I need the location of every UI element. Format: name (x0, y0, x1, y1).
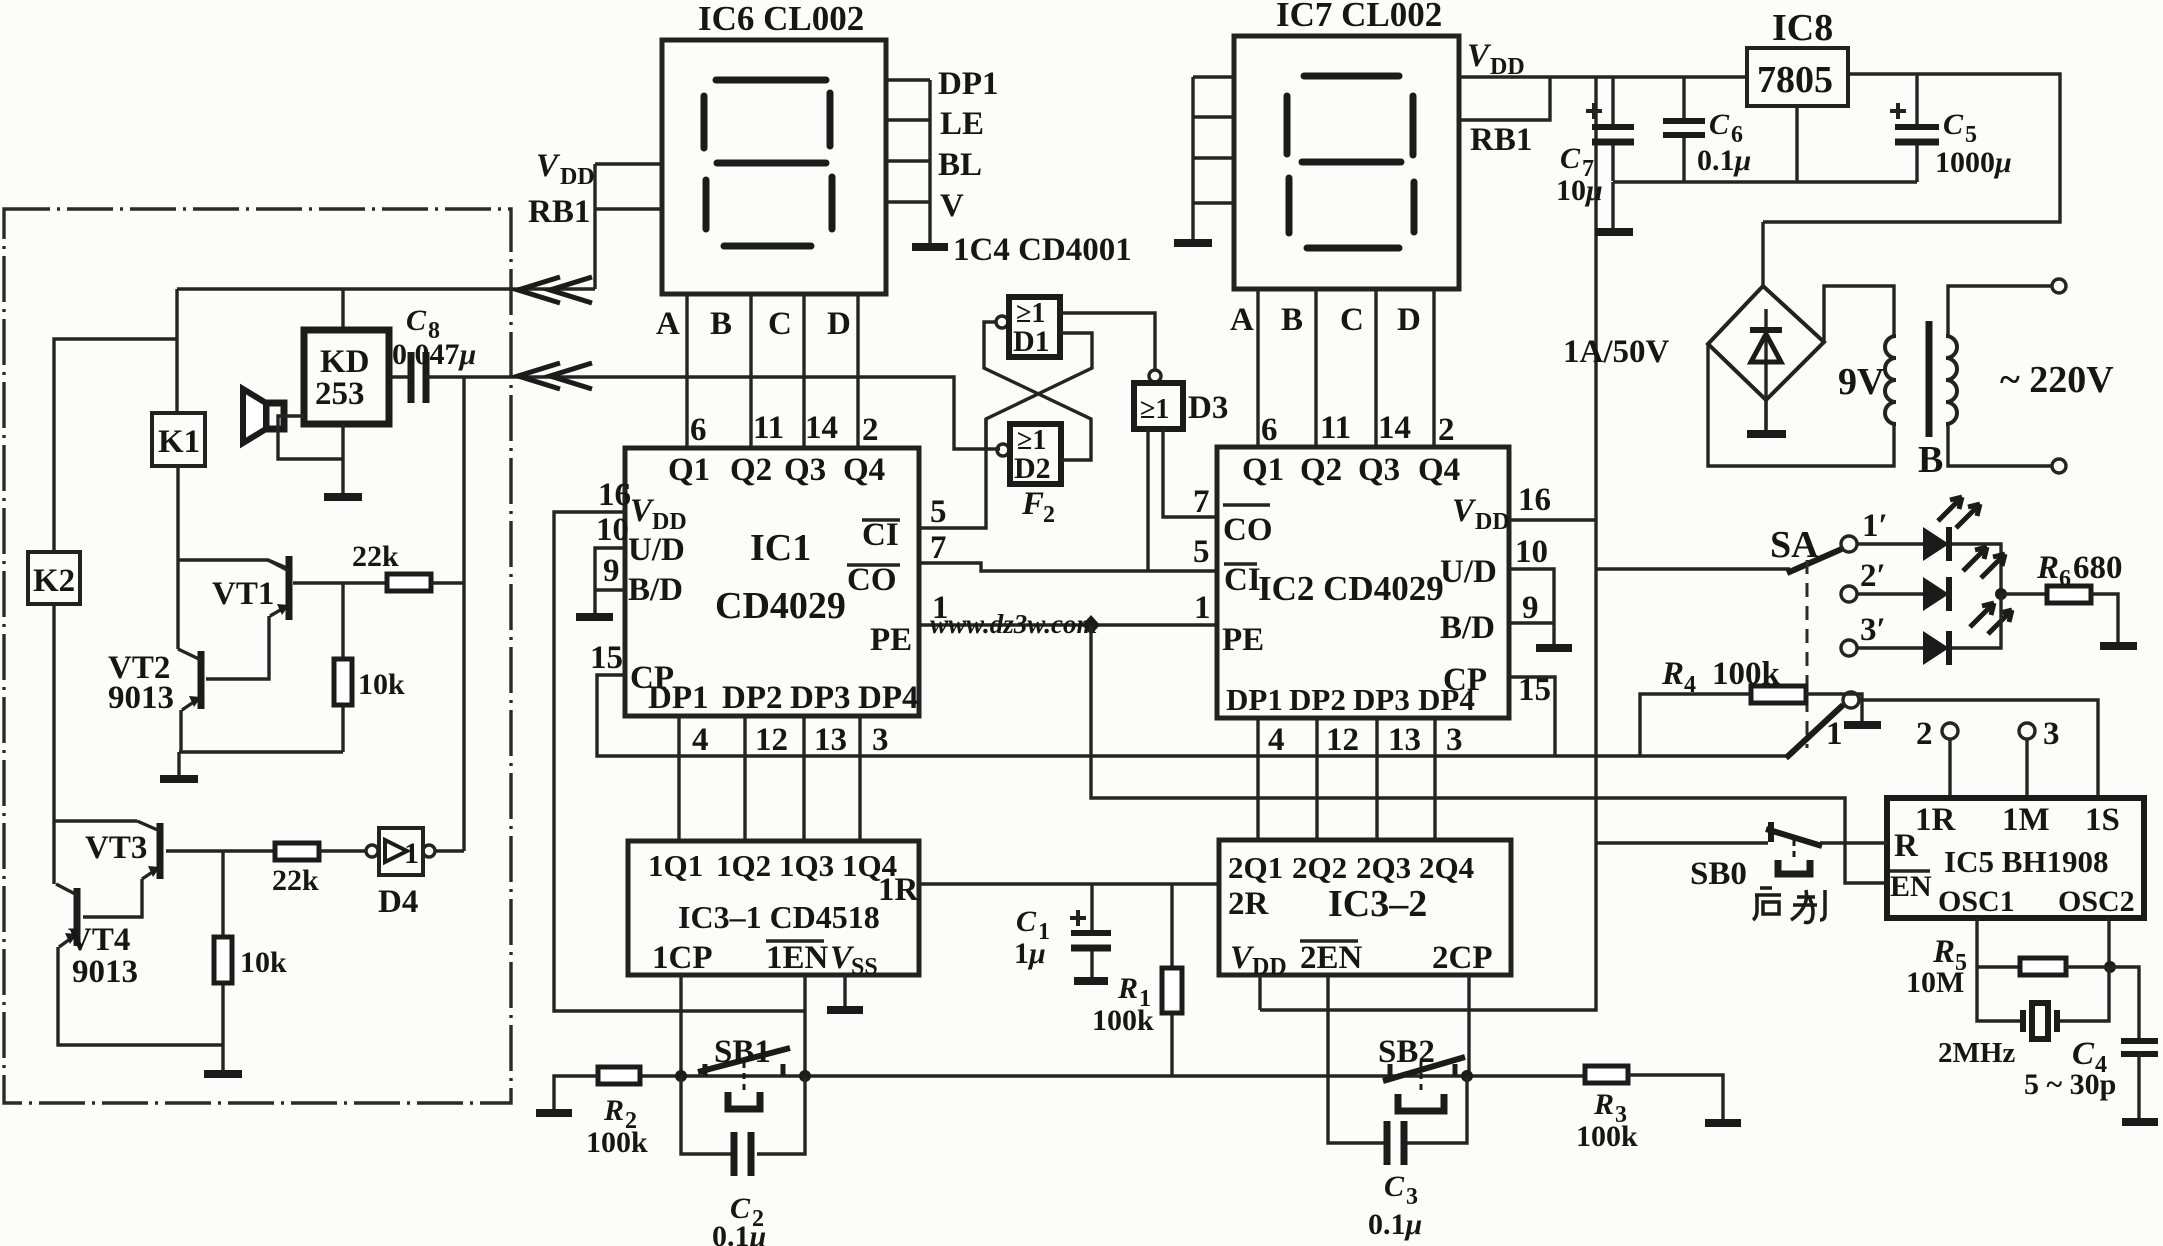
svg-text:U/D: U/D (1440, 554, 1497, 590)
svg-text:4: 4 (692, 722, 709, 758)
SA gang dashed link (1806, 560, 1809, 748)
wire: 2CP pin down to SB2 right node (1467, 975, 1470, 1076)
resistor R2 (586, 1067, 648, 1159)
transformer core (1926, 321, 1933, 437)
svg-text:DD: DD (1475, 509, 1510, 535)
svg-text:9: 9 (603, 553, 620, 589)
contact 3 circle + wire to 1M (2019, 716, 2060, 798)
svg-text:3: 3 (872, 722, 889, 758)
counter IC3-2 box (1219, 840, 1511, 975)
wire: D1 input from cross (984, 322, 1091, 460)
svg-text:C: C (1709, 108, 1730, 141)
svg-text:5: 5 (1193, 534, 1210, 570)
ground (bridge) (1747, 430, 1786, 438)
wires: IC7 left pins tied to ground (1193, 77, 1234, 240)
wire: primary bottom terminal (1948, 424, 2052, 466)
junction dot (PE node) (1082, 615, 1100, 635)
resistor 22k (VT1 base) (352, 540, 431, 591)
capacitor C5 electrolytic (1890, 74, 1939, 182)
svg-text:C: C (1384, 1170, 1405, 1203)
resistor R4 (1661, 656, 1806, 703)
svg-text:9: 9 (1522, 590, 1539, 626)
wire: 2EN pin down to SB2 left (1326, 975, 1329, 1076)
svg-text:B/D: B/D (1440, 610, 1495, 646)
wire: LED1 to join column (1952, 544, 2001, 594)
svg-text:V: V (940, 188, 964, 224)
svg-text:PE: PE (1222, 622, 1264, 658)
wire: SA deck1 pole feed from VDD (1596, 567, 1790, 570)
ground (C1) (1074, 977, 1108, 985)
svg-text:2: 2 (862, 412, 879, 448)
svg-text:0.1μ: 0.1μ (712, 1220, 766, 1246)
svg-text:F: F (1021, 486, 1044, 522)
wire: KD253 left pin to speaker and bottom pin loop (278, 416, 343, 497)
svg-text:15: 15 (590, 640, 623, 676)
svg-text:R: R (1894, 828, 1919, 864)
svg-text:K1: K1 (158, 424, 200, 460)
svg-text:Q1: Q1 (668, 452, 710, 488)
wire: IC6 VDD pin (595, 162, 662, 165)
terminal circle bottom (2052, 459, 2066, 473)
wire: 1R to 2R rail (919, 882, 1219, 885)
svg-text:D: D (827, 306, 851, 342)
bridge internal diode (1750, 309, 1782, 429)
svg-text:VT4: VT4 (68, 922, 130, 958)
wire: PE node down to rail y798 (1091, 625, 1887, 883)
wire: VT3 base to 22k (166, 849, 275, 852)
ground (IC7 left pins) (1174, 239, 1212, 247)
svg-text:LE: LE (940, 106, 984, 142)
svg-text:R: R (1117, 972, 1138, 1005)
wire: VT1 emitter to VT2 base (206, 616, 269, 679)
svg-text:2: 2 (1916, 716, 1933, 752)
svg-text:DD: DD (560, 164, 595, 190)
resistor R3 (1576, 1066, 1638, 1153)
terminal circle top (2052, 279, 2066, 293)
capacitor C1 electrolytic (1070, 884, 1111, 978)
svg-text:10k: 10k (358, 668, 405, 701)
svg-text:10: 10 (1515, 534, 1548, 570)
wire: 1' to LED1 (1857, 542, 1923, 545)
wire: arrow line 2 (C8 signal line to latch) (426, 377, 1000, 449)
wire: join to R6 (2001, 592, 2047, 595)
wire: VT4 collector column / emitter to bottom rail (54, 821, 223, 1045)
wire: IC7 VDD pin to 5V rail (1459, 75, 1747, 78)
relay K2 (28, 552, 80, 604)
wire: IC2 CP to rail y756 (1509, 677, 1555, 756)
svg-text:3: 3 (2043, 716, 2060, 752)
svg-text:7: 7 (1193, 484, 1210, 520)
svg-text:Q4: Q4 (843, 452, 885, 488)
wire: bridge left to 9V winding bottom (1708, 344, 1894, 466)
svg-text:2Q1: 2Q1 (1228, 850, 1283, 885)
ground (VT2 emitter) (160, 775, 198, 783)
speaker (243, 389, 284, 443)
wire: contact 1 to IC5 1S (1859, 700, 2098, 798)
gate D1 (NOR) (996, 297, 1060, 358)
svg-text:6: 6 (2059, 566, 2071, 592)
svg-text:1R: 1R (1915, 802, 1957, 838)
svg-text:R: R (1661, 656, 1684, 692)
svg-text:22k: 22k (352, 540, 399, 573)
svg-text:B: B (1281, 302, 1303, 338)
wire: IC1 pins 10,9 tied to ground (595, 548, 625, 613)
switch SB0 start button (1596, 822, 1887, 874)
svg-text:3′: 3′ (1860, 612, 1886, 648)
LED2 (1923, 577, 1949, 611)
svg-text:R: R (603, 1094, 624, 1127)
svg-text:CD4029: CD4029 (715, 585, 846, 627)
svg-text:1CP: 1CP (652, 940, 713, 976)
gate D2 (NOR) (997, 424, 1061, 485)
svg-text:7: 7 (930, 530, 947, 566)
wire: bridge bottom to ground (1764, 400, 1767, 431)
ground (C4) (2122, 1118, 2158, 1126)
svg-text:100k: 100k (1092, 1004, 1154, 1037)
svg-text:2Q4: 2Q4 (1419, 850, 1474, 885)
wire: IC3-2 VDD pin down to VDD rail (1258, 975, 1261, 1010)
transformer B secondary 9V winding (1885, 336, 1896, 424)
junction dot SB2 right (1461, 1070, 1473, 1082)
svg-text:253: 253 (315, 376, 365, 412)
svg-text:2′: 2′ (1860, 558, 1886, 594)
svg-text:Q4: Q4 (1418, 452, 1460, 488)
svg-text:5 ~ 30p: 5 ~ 30p (2024, 1068, 2116, 1101)
capacitor C2 bypass loop (681, 1076, 805, 1154)
ground (IC2 B/D) (1536, 644, 1572, 652)
resistor 10k (VT3 base divider) vertical (214, 851, 287, 1071)
wire: VT3 emitter to VT4 base (83, 879, 142, 917)
wire: KD253 right pin to C8 (389, 375, 411, 378)
svg-text:IC7 CL002: IC7 CL002 (1276, 0, 1442, 34)
svg-text:9V: 9V (1838, 361, 1885, 403)
contact 1 circle (1843, 692, 1859, 708)
wire: IC7 RB1 tied to VDD (1459, 77, 1550, 120)
svg-text:11: 11 (753, 410, 784, 446)
svg-text:100k: 100k (1576, 1120, 1638, 1153)
svg-text:DP3: DP3 (1353, 682, 1410, 717)
svg-text:9013: 9013 (108, 680, 174, 716)
svg-text:CO: CO (847, 562, 897, 598)
svg-text:D2: D2 (1014, 452, 1051, 485)
svg-text:D: D (1397, 302, 1421, 338)
wire: arrow line 1 (display rail to K1/KD253 top) (177, 289, 595, 413)
svg-text:6: 6 (1261, 412, 1278, 448)
capacitor C8 plates (411, 352, 426, 403)
svg-text:≥1: ≥1 (1140, 394, 1169, 425)
wire: D4 output up to C8 branch (435, 849, 464, 852)
junction dot OSC2 node (2104, 961, 2116, 973)
svg-text:Q2: Q2 (1300, 452, 1342, 488)
svg-text:B: B (1918, 439, 1943, 481)
svg-text:BL: BL (938, 147, 982, 183)
switch SA deck2 arm (1786, 705, 1843, 758)
wire: IC2 pin16 to VDD vertical (1509, 518, 1596, 521)
wire: common rail y182 (1613, 182, 1917, 230)
relay K1 (152, 413, 205, 466)
svg-text:0.047μ: 0.047μ (392, 338, 476, 371)
wire: IC1 pin16 to VDD rail down (554, 512, 805, 1011)
LED3 light arrows (1970, 603, 2012, 634)
svg-text:IC1: IC1 (750, 527, 811, 569)
contact 2 circle + wire to 1R (1916, 716, 1958, 798)
svg-text:R: R (1932, 934, 1955, 970)
svg-text:DP1: DP1 (1226, 682, 1283, 717)
svg-text:10M: 10M (1906, 966, 1964, 999)
gate D3 (NOR) (1134, 370, 1228, 429)
svg-text:C: C (768, 306, 792, 342)
svg-text:A: A (1230, 302, 1254, 338)
wire: IC1 CP to long rail y756 (597, 675, 1786, 756)
svg-text:RB1: RB1 (1470, 122, 1532, 158)
wire: C8 branch down to VT1 base 22k (462, 377, 465, 851)
svg-text:CI: CI (1224, 562, 1261, 598)
svg-text:10μ: 10μ (1556, 174, 1603, 207)
svg-text:SA: SA (1770, 524, 1819, 566)
bridge rectifier 1A/50V diamond (1708, 286, 1824, 400)
ground (IC6 control pins) (912, 243, 948, 251)
svg-text:DP3: DP3 (790, 680, 851, 716)
svg-text:2Q3: 2Q3 (1356, 850, 1411, 885)
wire: OSC2 down to R5 node (2107, 918, 2110, 967)
timer IC5 BH1908 box (1887, 798, 2144, 918)
svg-text:1Q1: 1Q1 (648, 848, 703, 883)
svg-text:R: R (1593, 1088, 1614, 1121)
ground (R6) (2100, 642, 2137, 650)
wire: VDD feed vertical x1596 from rail down (1260, 77, 1596, 1010)
wire: R3 right to ground (1628, 1075, 1723, 1120)
wire: K2 bottom to VT3/VT4 collectors (52, 604, 55, 821)
svg-text:1000μ: 1000μ (1935, 146, 2012, 179)
junction dot SB1 left (675, 1070, 687, 1082)
svg-text:1μ: 1μ (1014, 937, 1046, 970)
display IC7 CL002 box (1234, 36, 1459, 289)
ground (R4) (1844, 721, 1881, 729)
svg-text:4: 4 (1268, 722, 1285, 758)
svg-text:OSC1: OSC1 (1938, 885, 2015, 918)
transformer primary 220V winding (1946, 336, 1957, 424)
svg-text:B/D: B/D (628, 572, 683, 608)
svg-text:VT1: VT1 (212, 576, 274, 612)
svg-text:7805: 7805 (1757, 59, 1833, 101)
svg-text:1: 1 (404, 837, 419, 870)
svg-text:V: V (1467, 38, 1492, 74)
ground (IC1 B/D) (576, 613, 613, 621)
svg-text:2EN: 2EN (1300, 940, 1363, 976)
resistor 10k (VT1 base to rail) vertical (334, 583, 405, 752)
svg-text:IC8: IC8 (1772, 7, 1833, 49)
dash-dot enclosure box (left alarm section) (4, 209, 511, 1103)
gate D4 inverter (366, 828, 435, 920)
svg-text:CO: CO (1223, 512, 1273, 548)
wire: R2 left to ground (554, 1076, 598, 1110)
wire: 3' to LED3 (1857, 646, 1923, 649)
wires: IC1 DP pins down to IC3-1 (679, 716, 860, 841)
svg-text:22k: 22k (272, 864, 319, 897)
label qidong (start) (1753, 888, 1825, 923)
svg-text:2: 2 (1043, 502, 1055, 528)
display IC6 CL002 box (662, 40, 886, 294)
resistor R1 vertical (1162, 884, 1182, 1076)
7-segment digit of IC6 (704, 80, 832, 246)
wire: IC1 CO to IC2 CI carry chain (919, 563, 1217, 571)
7-segment digit of IC7 (1287, 76, 1414, 248)
capacitor C4 trimmer (2121, 1041, 2158, 1054)
svg-text:16: 16 (1518, 482, 1551, 518)
svg-text:1R: 1R (878, 872, 920, 908)
svg-text:DD: DD (1252, 954, 1287, 980)
svg-text:2R: 2R (1228, 886, 1270, 922)
svg-text:C: C (1016, 905, 1037, 938)
wire: primary top terminal (1948, 286, 2052, 336)
switch SB2 (1378, 1034, 1465, 1111)
svg-text:12: 12 (1326, 722, 1359, 758)
svg-text:IC5 BH1908: IC5 BH1908 (1944, 844, 2109, 879)
svg-text:2Q2: 2Q2 (1292, 850, 1347, 885)
contact 2' circle (1841, 586, 1857, 602)
svg-text:D4: D4 (378, 884, 418, 920)
svg-text:DP4: DP4 (1418, 682, 1475, 717)
wire: K2 top feed from line1 junction (54, 339, 177, 552)
svg-text:SS: SS (851, 954, 878, 980)
svg-text:SB0: SB0 (1690, 856, 1747, 892)
svg-text:B: B (710, 306, 732, 342)
svg-text:R: R (2036, 550, 2059, 586)
capacitor C3 bypass loop (1328, 1076, 1467, 1143)
svg-text:1Q3: 1Q3 (779, 848, 834, 883)
contact 3' circle (1841, 640, 1857, 656)
transistor VT1 (212, 556, 289, 620)
crystal 2MHz (2023, 1003, 2057, 1039)
svg-text:13: 13 (1388, 722, 1421, 758)
counter IC3-1 CD4518 box (628, 841, 919, 975)
wires: IC2 DP pins down to IC3-2 (1258, 718, 1435, 840)
svg-text:1EN: 1EN (766, 940, 829, 976)
svg-text:5: 5 (1965, 122, 1977, 148)
LED2 light arrows (1963, 547, 2005, 578)
svg-text:1M: 1M (2002, 802, 2050, 838)
svg-text:2CP: 2CP (1432, 940, 1493, 976)
svg-text:V: V (1452, 493, 1477, 529)
capacitor C7 electrolytic (1586, 77, 1634, 181)
wire: IC6 RB1 pin (595, 207, 662, 210)
svg-text:DP2: DP2 (722, 680, 783, 716)
wire: IC6 right control pins DP1 LE BL V (886, 80, 930, 246)
svg-text:2: 2 (1438, 412, 1455, 448)
LED1 light arrows (1938, 497, 1980, 528)
LED3 (1923, 631, 1949, 665)
wire: K1 bottom to VT1/VT2 collectors (178, 466, 289, 649)
sound IC KD253 (304, 330, 389, 424)
svg-text:0.1μ: 0.1μ (1697, 144, 1751, 177)
wire: D3 right input to IC2 CO (1163, 429, 1217, 517)
wire: VT3 collector from K2 column (54, 819, 137, 822)
ground (R3) (1705, 1119, 1741, 1127)
svg-text:~ 220V: ~ 220V (2000, 359, 2114, 401)
svg-text:1A/50V: 1A/50V (1563, 334, 1670, 370)
wire: R6 to ground (2091, 594, 2118, 643)
svg-text:EN: EN (1890, 870, 1932, 903)
svg-text:3: 3 (1446, 722, 1463, 758)
switch SB1 (698, 1034, 790, 1109)
wire: PE line IC1 to IC2 (919, 623, 1217, 626)
svg-text:www.dz3w.com: www.dz3w.com (930, 609, 1098, 639)
counter IC1 CD4029 box (625, 448, 919, 716)
transistor VT3 (85, 821, 160, 879)
wire: 22k to C8 branch (431, 581, 464, 584)
svg-text:1′: 1′ (1862, 508, 1888, 544)
svg-text:CI: CI (862, 517, 899, 553)
svg-text:680: 680 (2073, 550, 2123, 586)
wire: 2' to LED2 (1857, 592, 1923, 595)
capacitor C3 plates (1387, 1121, 1404, 1165)
wire: D3 left input down to carry line (1146, 429, 1149, 571)
wire: 1CP pin down to SB1 left node (679, 975, 682, 1076)
svg-text:1S: 1S (2085, 802, 2120, 838)
svg-text:IC3–2: IC3–2 (1328, 883, 1427, 925)
svg-text:14: 14 (1378, 410, 1411, 446)
capacitor C6 (1663, 77, 1705, 182)
svg-text:DP1: DP1 (938, 66, 999, 102)
svg-text:Q3: Q3 (784, 452, 826, 488)
wire: 22k to D4 input (319, 849, 366, 852)
wire: VDD/RB1 vertical (x595) down to line1 (593, 164, 596, 289)
svg-text:Q2: Q2 (730, 452, 772, 488)
svg-text:100k: 100k (1712, 656, 1781, 692)
svg-text:SB2: SB2 (1378, 1034, 1435, 1070)
counter IC2 CD4029 box (1217, 447, 1509, 718)
svg-text:IC2 CD4029: IC2 CD4029 (1258, 569, 1444, 608)
wire: VT2 emitter down to ground rail (179, 710, 343, 777)
svg-text:PE: PE (870, 622, 912, 658)
junction dot SB1 right (799, 1070, 811, 1082)
svg-text:3: 3 (1406, 1184, 1418, 1210)
svg-text:C: C (1340, 302, 1364, 338)
svg-text:9013: 9013 (72, 954, 138, 990)
svg-text:11: 11 (1320, 410, 1351, 446)
wire: crystal loop (1977, 967, 2109, 1021)
wire: 7805 gnd pin (1795, 106, 1798, 182)
wire: IC2 pins 10,9 tied to ground (1509, 569, 1554, 645)
arrowheads on line 1 (518, 277, 592, 303)
resistor 22k (VT3 base) (272, 843, 319, 897)
svg-text:16: 16 (598, 477, 631, 513)
wire: R4 left bracket to rail (1640, 694, 1751, 756)
junction dot LED join (1995, 588, 2007, 600)
resistor R5 (1906, 934, 2066, 999)
wire: IC1 CI pin to latch output node (919, 419, 986, 528)
wire: LED3 up to join column (1952, 594, 2001, 648)
ground (VT4 rail) (204, 1070, 242, 1078)
regulator IC8 7805 box (1747, 48, 1848, 106)
svg-text:1: 1 (1194, 590, 1211, 626)
wire: D1 lower output through cross to D2 input (986, 333, 1092, 449)
wire: R4 right to ground (1806, 694, 1862, 722)
svg-text:D3: D3 (1188, 390, 1228, 426)
svg-text:A: A (656, 306, 680, 342)
svg-text:V: V (536, 148, 561, 184)
capacitor C2 plates (734, 1132, 751, 1176)
svg-text:Q3: Q3 (1358, 452, 1400, 488)
svg-text:6: 6 (690, 412, 707, 448)
wire: 5V rail right of 7805 to bridge (1763, 74, 2060, 286)
svg-text:C: C (2072, 1036, 2095, 1072)
transistor VT2 (108, 649, 201, 716)
LED1 (1923, 527, 1949, 561)
svg-text:D1: D1 (1013, 325, 1050, 358)
svg-text:14: 14 (805, 410, 838, 446)
svg-text:1Q2: 1Q2 (716, 848, 771, 883)
